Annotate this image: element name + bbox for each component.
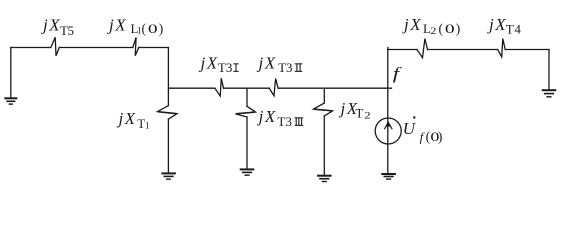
svg-text:2: 2 (364, 111, 371, 121)
svg-text:jX: jX (257, 53, 277, 72)
svg-text:(: ( (142, 21, 147, 36)
svg-text:T3: T3 (218, 60, 232, 75)
svg-text:T4: T4 (506, 22, 522, 37)
svg-text:jX: jX (107, 16, 127, 35)
svg-text:U: U (403, 119, 417, 138)
svg-text:): ) (438, 129, 443, 144)
svg-text:f: f (393, 64, 402, 83)
svg-text:0: 0 (445, 21, 455, 36)
svg-text:T3: T3 (278, 60, 292, 75)
svg-text:jX: jX (41, 16, 61, 35)
svg-text:1: 1 (145, 122, 150, 132)
svg-text:T3: T3 (277, 114, 291, 129)
svg-text:): ) (456, 21, 461, 36)
svg-text:jX: jX (257, 107, 277, 126)
svg-text:jX: jX (487, 15, 507, 34)
svg-text:2: 2 (430, 26, 436, 36)
svg-text:T5: T5 (60, 23, 74, 38)
svg-text:jX: jX (199, 53, 219, 72)
svg-text:(: ( (439, 21, 444, 36)
svg-text:jX: jX (402, 15, 422, 34)
svg-text:): ) (159, 21, 164, 36)
svg-text:0: 0 (148, 21, 158, 36)
svg-text:jX: jX (117, 109, 137, 128)
svg-text:T: T (355, 106, 363, 121)
